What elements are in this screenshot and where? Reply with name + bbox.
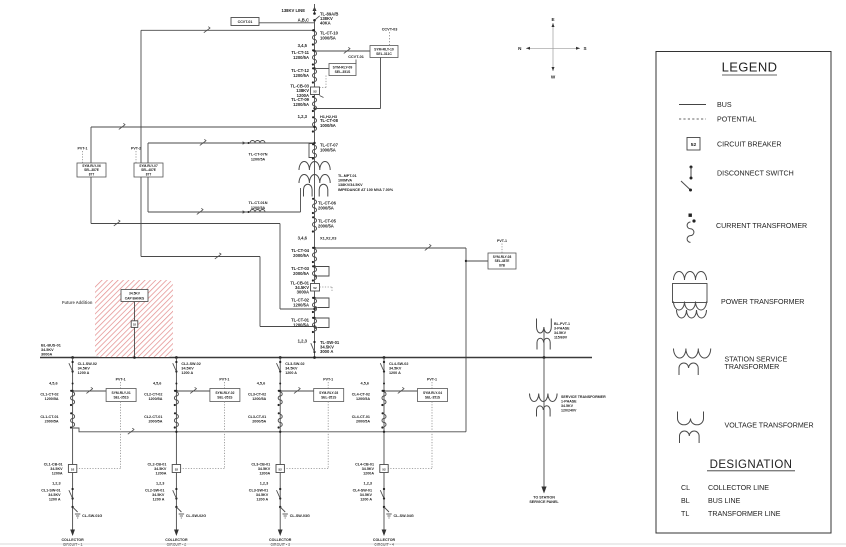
collector circuit 4 feeder arrow [382, 530, 387, 537]
svg-text:PVT-1: PVT-1 [427, 378, 437, 382]
svg-text:SEL-351S: SEL-351S [335, 70, 351, 74]
disconnect switch CL4-SW-01 [353, 488, 386, 502]
test switch on wire [204, 27, 210, 33]
node A,B,C [298, 18, 309, 23]
wire line to SYM-RLY-06 [91, 126, 316, 163]
svg-text:34.5KV: 34.5KV [554, 331, 567, 335]
label collector circuit 4 [373, 538, 396, 547]
svg-text:CL3-SW-02: CL3-SW-02 [285, 362, 304, 366]
wire collector circuit 3 [279, 358, 281, 531]
svg-text:100MVA: 100MVA [338, 179, 352, 183]
svg-text:52: 52 [313, 286, 317, 290]
wire neutral CT loop upper [148, 142, 316, 163]
potential tap PVT-1 [116, 378, 126, 389]
wire neutral CT loop lower [148, 177, 301, 212]
svg-text:CL4-CT-01: CL4-CT-01 [352, 415, 370, 419]
svg-text:34.5KV: 34.5KV [389, 366, 402, 370]
svg-text:2000/5A: 2000/5A [318, 223, 334, 228]
svg-text:TO STATION: TO STATION [533, 496, 555, 500]
svg-text:1200/5A: 1200/5A [293, 322, 309, 327]
node 1,2,3 [364, 482, 372, 486]
wire line to SYM-RLY-08 [313, 247, 466, 432]
potential tap PVT-1 [497, 239, 507, 253]
sheet edge [0, 543, 846, 545]
svg-text:1200 A: 1200 A [49, 498, 61, 502]
svg-text:E: E [551, 17, 554, 22]
svg-text:1200A: 1200A [259, 472, 270, 476]
circuit breaker CL3-CB-01 [251, 463, 284, 476]
legend voltage transformer symbol [678, 412, 814, 444]
collector circuit 2 feeder arrow [174, 530, 179, 537]
wire to SYM-RLY-08 [465, 260, 488, 262]
node 3,4,5 [298, 43, 308, 48]
node 4,5,6 [361, 382, 385, 386]
svg-text:34.5KV: 34.5KV [181, 366, 194, 370]
legend title LEGEND [722, 60, 778, 76]
svg-text:1,2,3: 1,2,3 [298, 339, 308, 344]
circuit breaker CL2-CB-01 [148, 463, 181, 476]
ccvt CCVT-01 [231, 18, 259, 26]
svg-text:SEL-311C: SEL-311C [376, 52, 392, 56]
svg-text:CAP BANKS: CAP BANKS [125, 297, 145, 301]
node 1,2,3 [298, 114, 308, 119]
svg-text:COLLECTOR: COLLECTOR [61, 538, 84, 542]
svg-text:CL2-SW-02: CL2-SW-02 [181, 362, 200, 366]
relay SYM-RLY-10 [370, 46, 398, 58]
label CCVT-01 tap [348, 55, 364, 64]
node bus tap circuit 2 [175, 356, 178, 359]
svg-text:52: 52 [313, 90, 317, 94]
svg-text:SERVICE PANEL: SERVICE PANEL [529, 500, 559, 504]
svg-text:CL1-CB-01: CL1-CB-01 [44, 463, 63, 467]
svg-text:1,2,3: 1,2,3 [364, 482, 372, 486]
current transformer TL-CT-02 [291, 297, 329, 313]
svg-text:87B: 87B [499, 263, 506, 267]
node main line to bus [313, 356, 316, 359]
svg-text:PVT-1: PVT-1 [219, 378, 229, 382]
wire main line TL [314, 21, 316, 358]
wire transformer neutral [300, 188, 302, 212]
svg-text:87T: 87T [89, 172, 95, 176]
svg-text:34.5KV: 34.5KV [360, 493, 373, 497]
svg-text:VOLTAGE TRANSFORMER: VOLTAGE TRANSFORMER [725, 422, 814, 430]
current transformer TL-CT-11 [291, 49, 316, 65]
wire collector circuit 1 [72, 358, 74, 531]
svg-text:POWER TRANSFORMER: POWER TRANSFORMER [721, 298, 804, 306]
potential wire across collector circuits [73, 428, 466, 432]
relay SYM-RLY-02 [210, 389, 240, 402]
svg-text:PVT-1: PVT-1 [78, 147, 88, 151]
test switch [215, 253, 221, 259]
collector circuit 3 feeder arrow [278, 530, 283, 537]
current transformer TL-CT-07 [309, 143, 339, 160]
disconnect switch CL3-SW-01 [249, 488, 282, 502]
disconnect switch TL-89A/B [313, 12, 338, 26]
svg-text:40KA: 40KA [320, 21, 331, 26]
test switch [200, 139, 206, 145]
potential tap PVT-2 [131, 147, 141, 164]
svg-text:138KV/34.5KV: 138KV/34.5KV [338, 183, 363, 187]
node 4,5,6 [257, 382, 281, 386]
label collector circuit 2 [165, 538, 188, 547]
node bus tap circuit 4 [383, 356, 386, 359]
current transformer CL2-CT-01 [144, 412, 178, 428]
svg-text:COLLECTOR LINE: COLLECTOR LINE [708, 484, 769, 492]
wire future cap bank [133, 302, 136, 359]
current transformer CL1-CT-02 [40, 390, 74, 406]
ground switch CL-SW-01G [71, 506, 102, 518]
test switch [344, 47, 350, 53]
circuit breaker TL-CB-03 [290, 84, 323, 98]
svg-text:SEL-351S: SEL-351S [113, 395, 129, 399]
svg-text:TL-CT-01N: TL-CT-01N [249, 201, 268, 205]
svg-text:BL-PVT-1: BL-PVT-1 [554, 322, 570, 326]
svg-text:1200/5A: 1200/5A [251, 206, 266, 210]
svg-text:COLLECTOR: COLLECTOR [373, 538, 396, 542]
svg-text:CL2-CT-02: CL2-CT-02 [144, 393, 162, 397]
test switch [114, 220, 120, 226]
svg-text:CL1-CT-01: CL1-CT-01 [40, 415, 58, 419]
svg-text:COLLECTOR: COLLECTOR [269, 538, 292, 542]
svg-text:2000/5A: 2000/5A [252, 420, 266, 424]
svg-text:34.5KV: 34.5KV [258, 467, 271, 471]
current transformer TL-CT-08 [312, 116, 339, 132]
wire line to SYM-RLY-10 [313, 50, 370, 52]
svg-text:Future Addition: Future Addition [62, 300, 93, 305]
svg-text:3,4,6: 3,4,6 [298, 236, 308, 241]
current transformer TL-CT-12 [291, 67, 316, 83]
svg-text:52: 52 [691, 142, 697, 148]
svg-text:CL4-SW-01: CL4-SW-01 [353, 489, 372, 493]
svg-text:52: 52 [382, 468, 386, 472]
legend designation title [707, 459, 795, 471]
svg-text:87T: 87T [146, 172, 152, 176]
svg-text:CL-SW-04G: CL-SW-04G [394, 514, 414, 518]
polarity arrow [243, 210, 250, 213]
collector circuit 1 feeder arrow [70, 530, 75, 537]
svg-text:2000/5A: 2000/5A [318, 205, 334, 210]
node bus tap circuit 1 [71, 356, 74, 359]
svg-text:SEL-351S: SEL-351S [425, 395, 441, 399]
svg-text:CL3-CB-01: CL3-CB-01 [251, 463, 270, 467]
svg-text:34.5KV: 34.5KV [78, 366, 91, 370]
label TL-MPT-01 [338, 174, 394, 192]
potential tap PVT-1 [219, 378, 229, 389]
relay SYM-RLY-09 [329, 64, 356, 76]
svg-text:2000/5A: 2000/5A [45, 420, 59, 424]
test switch [197, 208, 203, 214]
legend power transformer symbol [673, 272, 805, 319]
svg-text:CL-SW-02G: CL-SW-02G [186, 514, 206, 518]
relay SYM-RLY-03 [314, 389, 344, 402]
svg-text:1200 A: 1200 A [389, 371, 401, 375]
legend designation TL [681, 510, 781, 518]
svg-text:52: 52 [175, 468, 179, 472]
station service transformer [530, 394, 558, 417]
svg-text:1000/5A: 1000/5A [320, 147, 336, 152]
svg-text:34.5KV: 34.5KV [41, 348, 54, 352]
node H1,H2,H3 [320, 114, 338, 119]
disconnect switch CL3-SW-02 [277, 361, 305, 375]
svg-text:CL1-SW-01: CL1-SW-01 [41, 489, 60, 493]
svg-text:SERVICE TRANSFORMER: SERVICE TRANSFORMER [561, 395, 606, 399]
trip wire SYM-RLY-09 to TL-CB-03 [320, 76, 327, 88]
svg-text:CCVT-03: CCVT-03 [382, 28, 398, 32]
circuit breaker CL1-CB-01 [44, 463, 77, 476]
svg-text:1,2,3: 1,2,3 [298, 114, 308, 119]
svg-text:2000/5A: 2000/5A [148, 420, 162, 424]
legend circuit breaker symbol [687, 138, 782, 151]
legend current transformer symbol [687, 214, 807, 243]
compass label W [551, 75, 556, 80]
svg-text:1200/5A: 1200/5A [356, 397, 370, 401]
svg-text:A,B,C: A,B,C [298, 18, 309, 23]
relay SYM-RLY-06 [77, 163, 106, 177]
svg-text:CL-SW-03G: CL-SW-03G [290, 514, 310, 518]
svg-text:120/240V: 120/240V [561, 409, 577, 413]
relay SYM-RLY-07 [134, 163, 163, 177]
svg-text:1200/5A: 1200/5A [252, 397, 266, 401]
svg-text:2000/5A: 2000/5A [293, 253, 309, 258]
label collector circuit 1 [61, 538, 84, 547]
wire to relay SYM-RLY-01 [71, 390, 106, 392]
trip wire SYM-RLY-04 to CL4-CB-01 [388, 402, 432, 469]
current transformer TL-CT-06 [312, 198, 337, 214]
wire SYM-RLY-07 CT route [141, 177, 316, 328]
polarity arrow [243, 141, 250, 144]
node 1,2,3 [156, 482, 164, 486]
svg-text:BUS LINE: BUS LINE [708, 497, 741, 505]
svg-text:1200/5A: 1200/5A [45, 397, 59, 401]
svg-text:DISCONNECT SWITCH: DISCONNECT SWITCH [717, 169, 794, 177]
incoming 138kV line arrow [313, 4, 317, 14]
svg-text:1-PHASE: 1-PHASE [561, 400, 577, 404]
svg-text:34.5KV: 34.5KV [152, 493, 165, 497]
to station service panel arrow [541, 487, 546, 494]
svg-text:1000/5A: 1000/5A [320, 35, 336, 40]
svg-text:CL: CL [681, 484, 690, 492]
svg-text:1200 A: 1200 A [256, 498, 268, 502]
legend designation CL [681, 484, 769, 492]
svg-text:CL3-CT-01: CL3-CT-01 [248, 415, 266, 419]
svg-text:1200/5A: 1200/5A [148, 397, 162, 401]
svg-text:CURRENT TRANSFROMER: CURRENT TRANSFROMER [716, 222, 807, 230]
svg-text:BL-BUS-01: BL-BUS-01 [41, 344, 61, 348]
svg-text:BL: BL [681, 497, 690, 505]
svg-text:4,5,6: 4,5,6 [361, 382, 369, 386]
node 1,2,3 lower [298, 339, 308, 344]
node potential tap [279, 431, 281, 433]
svg-text:3,4,5: 3,4,5 [298, 43, 308, 48]
current transformer CL3-CT-02 [248, 390, 282, 406]
svg-text:2000/5A: 2000/5A [356, 420, 370, 424]
svg-text:1200/5A: 1200/5A [251, 157, 266, 161]
svg-text:1200A: 1200A [52, 472, 63, 476]
svg-text:BUS: BUS [717, 101, 732, 109]
disconnect switch CL2-SW-02 [173, 361, 201, 375]
svg-text:1200A: 1200A [156, 472, 167, 476]
svg-text:CL3-SW-01: CL3-SW-01 [249, 489, 268, 493]
svg-text:CL3-CT-02: CL3-CT-02 [248, 393, 266, 397]
legend station service transformer symbol [674, 349, 788, 376]
svg-text:138KV LINE: 138KV LINE [281, 8, 305, 13]
current transformer TL-CT-05 [312, 216, 337, 232]
svg-text:115/69V: 115/69V [554, 336, 568, 340]
legend panel border [656, 52, 831, 534]
ground switch CL-SW-02G [175, 506, 206, 518]
svg-text:CL2-SW-01: CL2-SW-01 [145, 489, 164, 493]
svg-text:CL4-SW-02: CL4-SW-02 [389, 362, 408, 366]
svg-text:TL-CT-07N: TL-CT-07N [249, 153, 268, 157]
potential tap PVT-1 [78, 147, 88, 164]
svg-text:34.5KV: 34.5KV [154, 467, 167, 471]
svg-text:CIRCUIT BREAKER: CIRCUIT BREAKER [717, 140, 782, 148]
wire line to SYM-RLY-07 [141, 29, 315, 163]
test switch [190, 387, 196, 393]
current transformer TL-CT-09 [291, 96, 316, 112]
trip wire SYM-RLY-01 to CL1-CB-01 [77, 402, 121, 469]
svg-text:34.5KV: 34.5KV [48, 493, 61, 497]
svg-text:CL4-CB-01: CL4-CB-01 [355, 463, 374, 467]
svg-text:4,5,6: 4,5,6 [257, 382, 265, 386]
svg-text:W: W [551, 75, 556, 80]
svg-text:SEL-351S: SEL-351S [217, 395, 233, 399]
node 4,5,6 [49, 382, 73, 386]
svg-text:4,5,6: 4,5,6 [153, 382, 161, 386]
compass label S [584, 46, 587, 51]
current transformer TL-CT-10 [312, 29, 339, 45]
node 1,2,3 [52, 482, 60, 486]
svg-text:LEGEND: LEGEND [722, 60, 778, 75]
disconnect switch TL-SW-01 [311, 340, 340, 354]
current transformer TL-CT-04 [291, 247, 316, 263]
svg-text:CL2-CT-01: CL2-CT-01 [144, 415, 162, 419]
wire line to SYM-RLY-09 [313, 67, 329, 69]
voltage transformer BL-PVT-1 [537, 319, 552, 358]
compass label N [518, 46, 522, 51]
legend disconnect switch symbol [681, 166, 794, 192]
svg-text:S: S [584, 46, 587, 51]
node potential tap [175, 431, 177, 433]
relay SYM-RLY-08 [488, 253, 516, 269]
legend potential symbol [679, 115, 756, 123]
legend bus symbol [679, 101, 732, 109]
relay SYM-RLY-01 [106, 389, 136, 402]
svg-text:1200/5A: 1200/5A [293, 73, 309, 78]
future circuit breaker [131, 321, 138, 328]
test switch [425, 244, 431, 250]
node 1,2,3 [260, 482, 268, 486]
circuit breaker TL-CB-01 [290, 281, 319, 295]
label service transformer [561, 395, 606, 413]
node potential tap [383, 431, 385, 433]
svg-text:1200/5A: 1200/5A [293, 302, 309, 307]
future cap bank label box [121, 290, 148, 302]
svg-text:TL-MPT-01: TL-MPT-01 [338, 174, 357, 178]
node X1,X2,X3 [320, 236, 337, 241]
current transformer CL3-CT-01 [248, 412, 282, 428]
label BL-BUS-01 [41, 344, 61, 357]
disconnect switch CL2-SW-01 [145, 488, 178, 502]
potential tap PVT-1 [427, 378, 437, 389]
wire SYM-RLY-06 CT route [91, 177, 316, 310]
svg-text:TRANSFORMER: TRANSFORMER [725, 363, 780, 371]
test switch [86, 387, 92, 393]
svg-text:1000/5A: 1000/5A [320, 123, 336, 128]
svg-text:2000/5A: 2000/5A [293, 271, 309, 276]
trip wire SYM-RLY-03 to CL3-CB-01 [284, 402, 328, 469]
svg-text:DESIGNATION: DESIGNATION [710, 459, 793, 471]
svg-text:1,2,3: 1,2,3 [156, 482, 164, 486]
wire station service [543, 358, 545, 488]
svg-text:1200 A: 1200 A [360, 498, 372, 502]
legend designation BL [681, 497, 741, 505]
svg-text:34.5KV: 34.5KV [561, 404, 574, 408]
current transformer CL4-CT-01 [352, 412, 386, 428]
svg-text:TRANSFORMER LINE: TRANSFORMER LINE [708, 510, 781, 518]
wire collector circuit 2 [175, 358, 177, 531]
current transformer TL-CT-01N [249, 201, 268, 212]
svg-text:IMPEDANCE AT 100 MVA 7.00%: IMPEDANCE AT 100 MVA 7.00% [338, 188, 394, 192]
disconnect switch CL4-SW-02 [380, 361, 408, 375]
wire to relay SYM-RLY-02 [175, 390, 210, 392]
svg-text:1200 A: 1200 A [181, 371, 193, 375]
label collector circuit 3 [269, 538, 292, 547]
svg-text:CL2-CB-01: CL2-CB-01 [148, 463, 167, 467]
node bus tap circuit 3 [279, 356, 282, 359]
trip wire SYM-RLY-02 to CL2-CB-01 [181, 402, 225, 469]
svg-text:PVT-2: PVT-2 [131, 147, 141, 151]
svg-text:1200/5A: 1200/5A [293, 55, 309, 60]
node 3,4,6 [298, 236, 308, 241]
svg-text:POTENTIAL: POTENTIAL [717, 115, 756, 123]
wire collector circuit 4 [383, 358, 385, 531]
compass rose axes [526, 23, 580, 71]
svg-text:1200 A: 1200 A [153, 498, 165, 502]
wire to relay SYM-RLY-03 [279, 390, 314, 392]
svg-text:1,2,3: 1,2,3 [260, 482, 268, 486]
svg-text:TL: TL [681, 510, 689, 518]
svg-text:CL4-CT-02: CL4-CT-02 [352, 393, 370, 397]
label BL-PVT-1 [554, 322, 570, 340]
circuit breaker CL4-CB-01 [355, 463, 388, 476]
relay SYM-RLY-04 [418, 389, 448, 402]
svg-text:COLLECTOR: COLLECTOR [165, 538, 188, 542]
svg-text:3000 A: 3000 A [320, 349, 333, 354]
svg-text:1,2,3: 1,2,3 [52, 482, 60, 486]
wire CCVT-03 dashed [389, 32, 391, 46]
svg-text:PVT-1: PVT-1 [323, 378, 333, 382]
svg-text:3-PHASE: 3-PHASE [554, 327, 570, 331]
test switch [119, 123, 125, 129]
disconnect switch CL1-SW-02 [69, 361, 97, 375]
svg-text:PVT-1: PVT-1 [116, 378, 126, 382]
current transformer CL4-CT-02 [352, 390, 386, 406]
svg-text:CCVT-01: CCVT-01 [238, 20, 253, 24]
current transformer CL1-CT-01 [40, 412, 74, 428]
ground switch CL-SW-03G [279, 506, 310, 518]
svg-text:1200 A: 1200 A [78, 371, 90, 375]
node 4,5,6 [153, 382, 177, 386]
svg-text:1200/5A: 1200/5A [293, 102, 309, 107]
svg-text:X1,X2,X3: X1,X2,X3 [320, 236, 337, 241]
svg-text:3000A: 3000A [297, 290, 309, 295]
test switch [294, 387, 300, 393]
disconnect switch CL1-SW-01 [41, 488, 74, 502]
svg-text:34.5KV: 34.5KV [362, 467, 375, 471]
svg-text:CL1-SW-02: CL1-SW-02 [78, 362, 97, 366]
current transformer TL-CT-03 [291, 265, 329, 281]
